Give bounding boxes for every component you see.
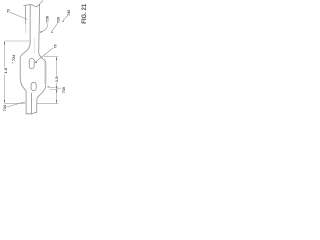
svg-text:740: 740 xyxy=(67,10,71,16)
svg-text:FIG. 21: FIG. 21 xyxy=(82,3,88,24)
svg-text:734: 734 xyxy=(3,104,7,111)
svg-text:724: 724 xyxy=(12,54,16,61)
svg-text:1.5: 1.5 xyxy=(54,76,59,82)
svg-text:72: 72 xyxy=(7,9,11,13)
svg-text:76: 76 xyxy=(53,44,57,48)
svg-text:1.5: 1.5 xyxy=(3,67,8,73)
svg-text:720: 720 xyxy=(57,17,61,23)
svg-text:738: 738 xyxy=(46,16,50,22)
svg-text:730: 730 xyxy=(62,87,66,93)
